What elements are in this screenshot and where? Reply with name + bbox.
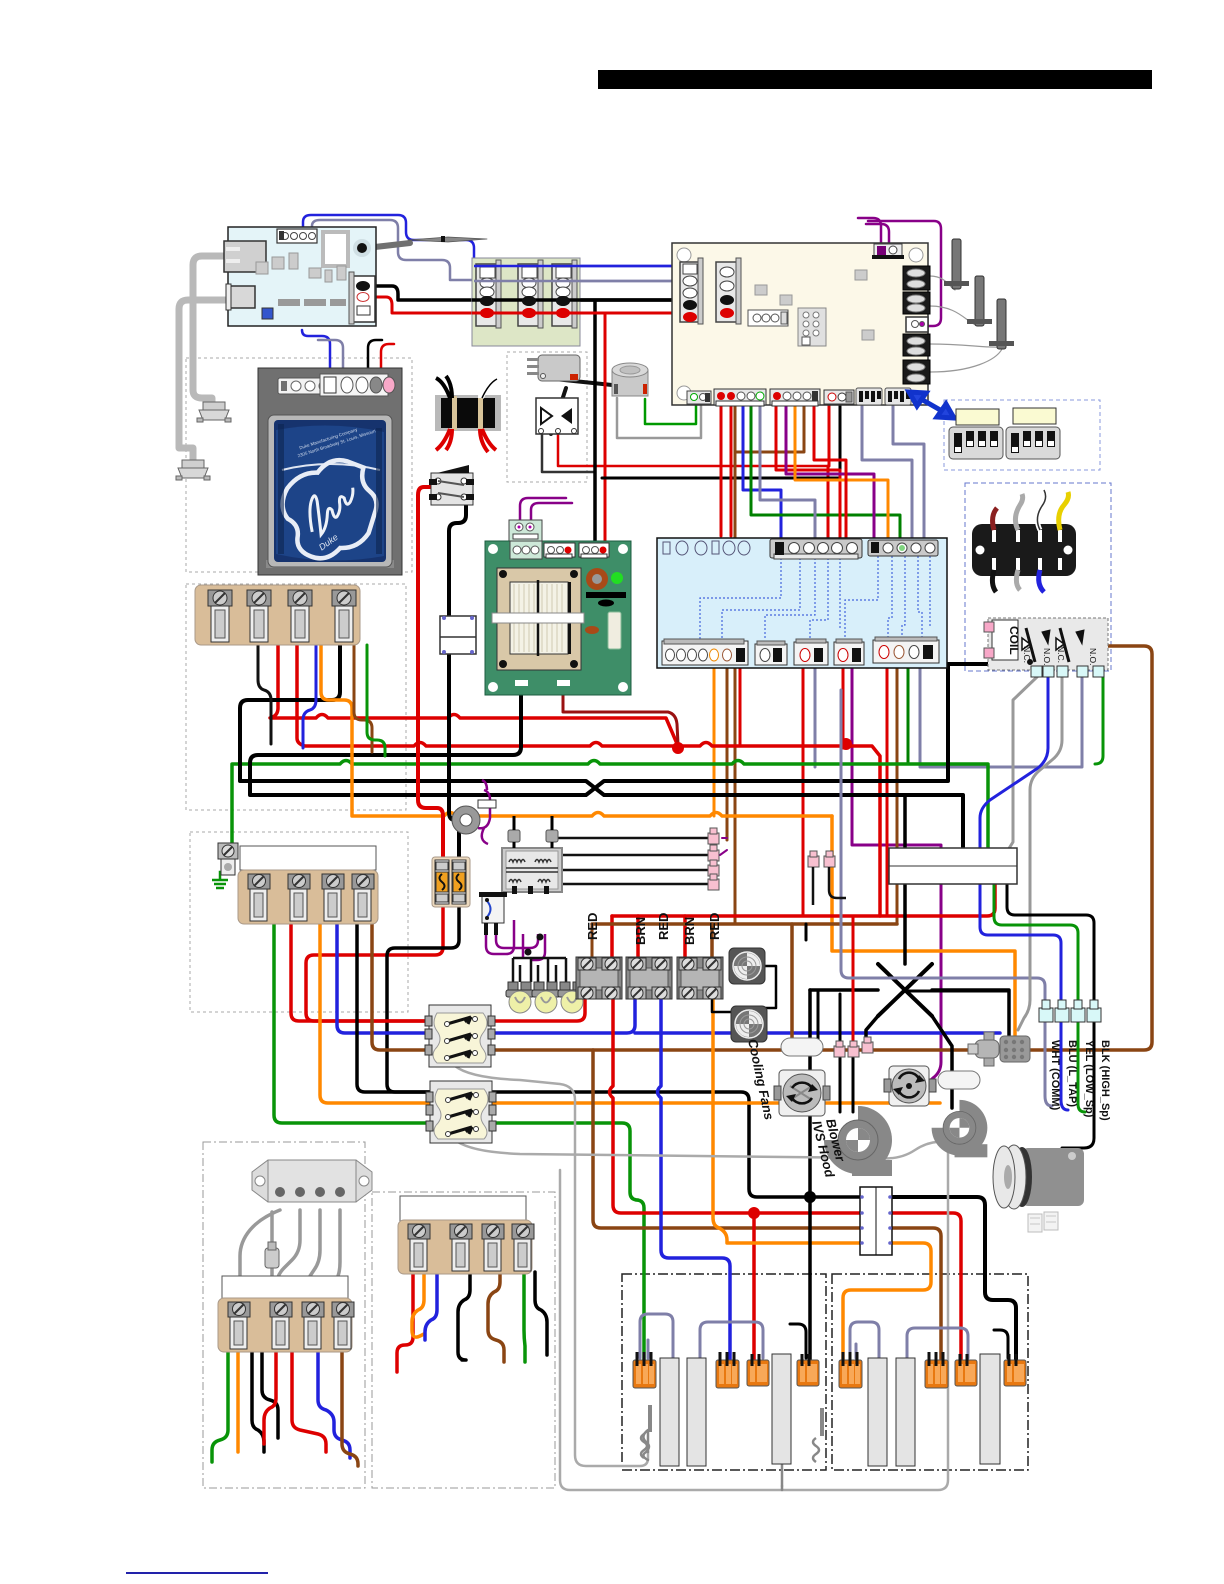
red dot junction x754 [748, 1207, 760, 1219]
svg-text:BLU (L_TAP): BLU (L_TAP) [1066, 1040, 1078, 1107]
dash-dot heating element box left [622, 1274, 826, 1470]
nut row stubs up [720, 838, 727, 855]
cream board bundle: red B [730, 406, 733, 536]
tan1 stub blue [303, 645, 316, 748]
relay board out: red2 [802, 666, 805, 916]
blue double arrow [909, 392, 954, 418]
fan motor with pulley [993, 1145, 1084, 1209]
probe2 wire [930, 306, 978, 326]
wire blue PCB-top to display [302, 330, 330, 378]
wire slate PCB-top to display [318, 340, 343, 378]
nut wires black [840, 994, 853, 1112]
DIP switch block 2 [1006, 427, 1060, 459]
dashed box around relay and coil [965, 483, 1111, 671]
relay1 blue row right [490, 999, 1000, 1033]
tan1 stub green [367, 645, 385, 756]
bowtie transformer component [435, 374, 501, 452]
gray relay return A [455, 1066, 648, 1466]
purple wire to board side connector [868, 221, 941, 326]
green terminal module [472, 258, 580, 346]
motor sketch small [1028, 1212, 1058, 1232]
dashed box around left terminal block 2 [190, 832, 408, 1012]
relay board out: slate to coil loop [920, 666, 1082, 767]
ice relay 2 (cream) [426, 1081, 496, 1143]
relay board out: brown y924 bus [896, 666, 899, 924]
relay board top strip 1 [770, 539, 862, 558]
contactor C3 bottom orange long [713, 999, 860, 1243]
motor1 capsule feed black [806, 924, 818, 1040]
cream board bundle: blue to relay board [743, 406, 781, 540]
orange bus y816 [321, 645, 832, 816]
relay board top strip 2 [868, 540, 938, 556]
left terminal block 1 (tan) [195, 585, 360, 645]
contactor C2 bottom blue long [658, 999, 731, 1360]
element connector block 4 [797, 1354, 819, 1386]
nut red from y916 [852, 916, 855, 1044]
bar out blue [980, 884, 1061, 1008]
contactor C1 top red [610, 916, 614, 958]
slate element wires left box [640, 1314, 763, 1358]
black dot y1197 [804, 1191, 816, 1203]
gray inline connector [265, 1248, 279, 1268]
svg-text:N.O.: N.O. [1088, 648, 1098, 665]
pink nut row horizontals [533, 838, 713, 884]
motor symbol 2 [884, 1066, 936, 1106]
black vertical x810 [808, 990, 812, 1360]
blower 2 [932, 1100, 988, 1157]
black element wires right box [988, 1330, 1008, 1388]
tan2 wire black [357, 923, 431, 1092]
dashed enclosure box around bowtie/rocker [186, 358, 412, 572]
main control board (cream) [672, 243, 930, 406]
svg-text:RED: RED [656, 913, 671, 940]
black vertical from board-left connector [602, 403, 840, 478]
relay1 red row right [490, 999, 585, 1021]
svg-text:BRN: BRN [682, 917, 697, 945]
svg-text:YEL (LOW_Sp): YEL (LOW_Sp) [1083, 1040, 1095, 1118]
rocker black feed [449, 503, 466, 618]
rocker switch [429, 465, 474, 505]
relay2 green row right [492, 1123, 644, 1360]
cream board bundle: orange to relay board strip2 [795, 406, 888, 544]
brown drop to capsule1 [790, 924, 794, 1040]
knurled plug connector [968, 1032, 1030, 1066]
brown row y924 [592, 922, 897, 926]
coil cyan out blue (BLU) [980, 676, 1048, 850]
footer blue line [126, 1572, 268, 1574]
title bar (redacted) [598, 70, 1152, 89]
mint terminal block [509, 520, 542, 560]
heating elements right box [813, 1352, 1026, 1466]
board bottom connectors [687, 391, 711, 404]
black X crossing [878, 964, 932, 1016]
coil output cyan terminals [1031, 666, 1104, 677]
board top connector with purple wires [874, 244, 902, 257]
pink wire nuts row (x713) [708, 828, 719, 890]
relay board out: red4 [886, 666, 889, 916]
cooling fan 1 [729, 948, 765, 984]
relay board small bottom blocks [755, 641, 787, 665]
dash-dot box bottom-left 1 [203, 1142, 365, 1488]
relay board out: slate [814, 666, 817, 767]
black plug connectors above transformer [508, 830, 520, 842]
svg-text:RED: RED [707, 913, 722, 940]
coil cyan out gray1 [1008, 676, 1038, 850]
buzzer cylinder [612, 363, 648, 396]
pink wire nuts pair (x820) [808, 851, 846, 905]
black X horizontals [810, 990, 1009, 1038]
relay board out: orange [713, 666, 716, 816]
black through contactor to fuse2 [449, 653, 459, 860]
red bus A y718 [270, 645, 678, 746]
wire black PCB to modules bus [377, 286, 688, 300]
fuse2 black out [387, 903, 459, 1092]
relay1 brown row right to coil [490, 646, 1152, 1050]
motor1 white capsule [781, 1038, 823, 1056]
relay board bottom long strip [662, 641, 748, 665]
fuse block [432, 857, 470, 907]
red row y916 [612, 884, 995, 916]
junction box out black [892, 1197, 1016, 1360]
buzzer gray wire [617, 398, 701, 438]
indicator lamp 1 [506, 982, 534, 1013]
gray inline connector wire [270, 1212, 274, 1280]
white strip above tan4 [400, 1196, 526, 1224]
black X to nut [866, 1016, 878, 1044]
left terminal block 2 (tan) [238, 870, 378, 924]
red bus B y746 [297, 645, 846, 746]
triac red wire [558, 432, 828, 466]
bar out green [994, 884, 1078, 1008]
IVS hood blower [824, 1106, 892, 1176]
dark red from green pcb tab [563, 684, 678, 744]
DIP switch label 1 [956, 409, 999, 425]
wire red to display [381, 344, 394, 378]
long white junction bar [889, 848, 1017, 884]
svg-text:N.C.: N.C. [1022, 646, 1032, 663]
dashed box around DIP switches [944, 400, 1100, 470]
fuse1 red out to relay1 [306, 903, 443, 1021]
svg-text:BRN: BRN [633, 917, 648, 945]
temperature probe 2 [967, 276, 992, 326]
tan1 stub black2 [258, 645, 271, 744]
relay interface board (light blue) [657, 538, 947, 668]
micro switch [527, 355, 580, 381]
tan2 wire red [291, 923, 431, 1021]
purple lamp wiring [486, 920, 545, 960]
tan2 wire brown [372, 923, 431, 1050]
lamp bracket wiring [513, 958, 566, 982]
gray relay return B [455, 1140, 948, 1490]
triac black wire [542, 432, 595, 472]
element connector block 2 [716, 1352, 739, 1388]
purple wires cream board top [858, 218, 881, 247]
cream board bundle: green to relay board [751, 406, 900, 544]
svg-text:RED: RED [585, 913, 600, 940]
cream board bundle: red to relay board strip1 [776, 406, 840, 540]
wire slate PCB to green module [312, 220, 474, 280]
micro switch lever [545, 378, 612, 385]
WHT slate wire [841, 690, 1045, 1008]
rocker red feed [418, 487, 443, 860]
Duke display unit [258, 368, 402, 575]
thermometer probe needle [408, 237, 487, 242]
indicator lamp 3 [558, 982, 586, 1013]
wire labels WHT BLU YEL BLK [1049, 1040, 1111, 1121]
cyan terminals WHT BLU YEL BLK [1039, 1000, 1101, 1022]
relay board out: red3 [842, 666, 845, 748]
red branch down x754 to left elements [752, 1213, 756, 1360]
dash-dot box bottom-left 2 [372, 1192, 555, 1488]
black X to blower2 [932, 1016, 952, 1108]
control transformer [502, 848, 562, 894]
WHT BLU YEL BLK drops to motor [1045, 1022, 1052, 1106]
pink nuts above blower1 [834, 1037, 873, 1057]
black element wires left box [786, 1324, 806, 1380]
element bar 3 [772, 1354, 791, 1464]
brown branch down x593 [593, 1050, 860, 1228]
black power relay (top right) [972, 490, 1076, 592]
board left connector strips [680, 258, 703, 324]
slate element wires right box [850, 1322, 968, 1358]
cooling fan 2 [731, 1006, 767, 1042]
white contactor box (mid-left) [440, 616, 476, 654]
tan2 wire green [274, 923, 431, 1123]
red junction dot [672, 742, 684, 754]
contactor labels RED BRN [585, 913, 722, 945]
gray relay hex wires [240, 1210, 280, 1292]
contactor 3 [677, 957, 723, 999]
D-sub connector 1 [197, 402, 231, 422]
relay board out: green to bus [907, 666, 910, 764]
temperature probe 3 [989, 299, 1014, 349]
svg-text:N.C.: N.C. [1056, 646, 1066, 663]
wire blue module to cream board [492, 265, 684, 268]
ground symbol [212, 872, 232, 888]
red junction dot2 [840, 738, 852, 750]
cream board bundle: slate right 2 [893, 406, 924, 544]
wire red PCB to modules bus [377, 297, 726, 313]
svg-text:WHT (COMM): WHT (COMM) [1049, 1040, 1061, 1111]
element bar 1 [660, 1358, 679, 1466]
motor symbol 1 [774, 1070, 830, 1116]
element connector block 3 [747, 1354, 769, 1386]
D-sub connector 2 [176, 460, 210, 480]
board side white connector [906, 317, 928, 332]
tan4 wires below [397, 1272, 413, 1372]
wire gray cable PCB to D-sub2 [179, 300, 232, 462]
board DIP connectors bottom [856, 388, 882, 405]
coil cyan out gray2 [1018, 676, 1062, 1030]
temperature probe 1 [944, 239, 969, 289]
board SMD bits [855, 270, 867, 280]
bottom tan block 4 [398, 1220, 534, 1274]
gray element coil stub B [777, 1436, 783, 1486]
fan links black [712, 966, 776, 1012]
bar out black [1007, 884, 1094, 1008]
red vertical from board-left connector [828, 403, 831, 466]
tan1 stub brown [354, 645, 372, 752]
cream board bundle: purple to relay board strip2 [786, 406, 874, 544]
junction box out red [892, 1213, 961, 1360]
Duke ribbon logo [273, 451, 391, 567]
element bar 2 [687, 1358, 706, 1466]
contactor 1 [576, 957, 622, 999]
black y991 to plug [905, 990, 1009, 993]
DIP switch block 1 [949, 427, 1003, 459]
WIRES-LAYER [179, 215, 1082, 1090]
ignition green PCB [485, 541, 631, 695]
contactor 2 [626, 957, 672, 999]
purple wires to mint terminal [520, 498, 566, 522]
bottom tan block 3 [218, 1298, 354, 1352]
contactor C3 top brown [710, 924, 714, 958]
probe1 wire [930, 276, 955, 290]
white strip above tan3 [222, 1276, 348, 1300]
orange vertical to y951 row [832, 816, 1015, 1038]
relay board out: red to bus [739, 666, 742, 746]
relay symbol small [479, 892, 507, 935]
COIL relay box [984, 618, 1108, 670]
tan2 wire blue [337, 923, 431, 1033]
black bus D y795 [250, 664, 988, 795]
black bus C y781 [240, 645, 963, 850]
black vertical from triac bus [593, 302, 597, 546]
tan3 wires below [212, 1351, 228, 1462]
gray hex relay bottom-left [252, 1160, 372, 1202]
element connector block 1 [633, 1352, 656, 1388]
cream board bundle: slate right [862, 406, 912, 544]
white strip above tan2 [240, 846, 376, 870]
controller PCB top-left [224, 227, 376, 326]
contactor C2 top red [636, 916, 640, 958]
board right black connectors [903, 266, 930, 384]
small gray connector above tan2 [218, 843, 238, 875]
relay board out: purple to motor2 [852, 666, 941, 1090]
toroid with purple wire [452, 780, 496, 844]
relay board out: brown to nut [726, 666, 729, 840]
dash-dot heating element box right [832, 1274, 1028, 1470]
relay2 orange row right [492, 1101, 940, 1105]
black drop from bus to X [903, 795, 907, 964]
ice relay 1 (cream) [425, 1005, 495, 1067]
probe cable from PCB jack [366, 243, 410, 248]
red branch after dot2 [846, 746, 880, 916]
contactor C1 bottom red long [610, 999, 861, 1213]
svg-text:COIL: COIL [1007, 626, 1021, 655]
tan2 wire orange [320, 923, 431, 1103]
junction box out orange [843, 1243, 931, 1360]
green ground bus y764 [232, 761, 988, 873]
gray element coil stub A [643, 1430, 649, 1460]
sensor pin + coil [648, 1405, 652, 1432]
dashed enclosure box around micro switch / triac [507, 352, 587, 482]
cream board bundle: brown jog [735, 406, 804, 452]
svg-text:BLK (HIGH_Sp): BLK (HIGH_Sp) [1099, 1040, 1111, 1121]
contactor C3 top red [683, 916, 687, 958]
DIP switch label 2 [1013, 408, 1056, 424]
black red bus over green module [472, 298, 688, 302]
relay2 black row right [492, 1092, 860, 1197]
blower2 capsule [938, 1071, 980, 1089]
wire blue PCB to green module [303, 215, 474, 264]
cream board bundle: red A [720, 406, 723, 536]
cream board bundle: brown long (behind relay board) [592, 406, 735, 958]
junction box out brown [892, 1228, 941, 1360]
cream board bundle: red stub [814, 406, 846, 540]
heating elements left box [633, 1352, 819, 1466]
wire slate module to cream board [492, 280, 684, 283]
probe3 wires [930, 344, 1000, 347]
cream board bundle: slate to relay board [760, 406, 815, 540]
buzzer green wire [645, 399, 696, 424]
coil cyan out green (YEL) [1095, 676, 1103, 764]
svg-text:N.O.: N.O. [1042, 648, 1052, 665]
wire gray cable PCB to D-sub1 [193, 256, 230, 404]
indicator lamp 2 [532, 982, 560, 1013]
wire black to display [368, 340, 382, 378]
white junction box (bottom) [860, 1187, 892, 1255]
triac symbol box [536, 398, 578, 434]
